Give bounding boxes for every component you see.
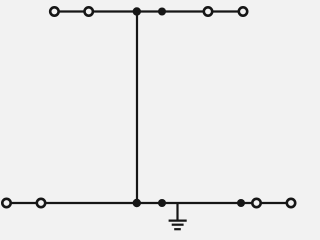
ground bar 3 — [174, 228, 181, 230]
terminal circle 6 (bottom left inner) — [37, 199, 45, 207]
terminal circle 1 (top left outer) — [50, 7, 58, 15]
junction dot: bottom bus jumper contact — [158, 199, 166, 207]
terminal circle 5 (bottom left outer) — [2, 199, 10, 207]
wire: top bus from terminal 1 to terminal 4 — [54, 10, 243, 12]
terminal circle 8 (bottom right outer) — [287, 199, 295, 207]
wire: bottom bus from terminal 5 to terminal 8 — [7, 202, 292, 204]
junction dot: bottom bus / vertical link — [133, 199, 141, 207]
terminal circle 3 (top right inner) — [204, 7, 212, 15]
ground bar 1 — [169, 220, 187, 222]
junction dot: top bus jumper contact — [158, 8, 166, 16]
wire: vertical link between top and bottom bus — [136, 12, 138, 204]
ground lead wire — [176, 203, 178, 220]
terminal circle 7 (bottom right inner) — [252, 199, 260, 207]
ground bar 2 — [172, 224, 184, 226]
terminal circle 2 (top left inner) — [85, 7, 93, 15]
junction dot: bottom bus right jumper contact — [237, 199, 245, 207]
ground — [169, 203, 187, 229]
junction dot: top bus / vertical link — [133, 7, 141, 15]
terminal circle 4 (top right outer) — [239, 7, 247, 15]
